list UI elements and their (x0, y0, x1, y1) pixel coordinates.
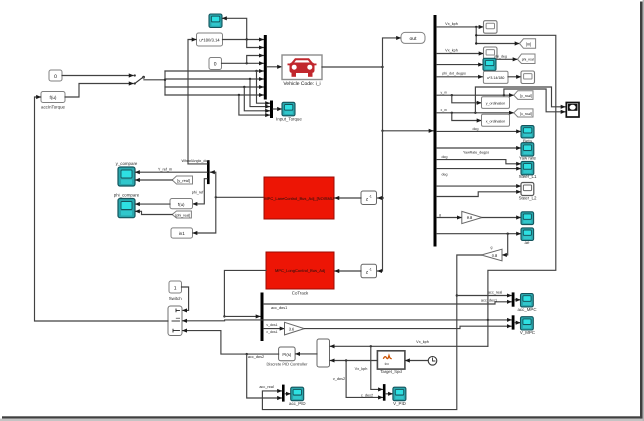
svg-text:Steer_L1: Steer_L1 (519, 174, 537, 179)
svg-text:0: 0 (214, 62, 217, 68)
demux (MPC reference) (207, 160, 210, 184)
wire row x_m: goto [x_real], x_ordination, XY in1 (437, 112, 514, 114)
unit delay z-1 (lower) (361, 264, 377, 278)
wire 0.8 gain out: acc_real feedback loop (262, 255, 481, 410)
svg-text:Discrete PID Controller: Discrete PID Controller (267, 361, 309, 366)
Vehicle Code block (282, 55, 322, 87)
svg-text:Vehicle Code: i_i: Vehicle Code: i_i (283, 81, 320, 87)
y_ordination block (482, 97, 510, 109)
svg-text:acc_MPC: acc_MPC (517, 307, 536, 312)
svg-text:Vx_kph: Vx_kph (416, 340, 429, 344)
mux V_PID + scope (383, 384, 386, 401)
svg-text:deg: deg (473, 127, 479, 131)
goto [phi_real] (518, 54, 536, 64)
mux acc_MPC + scope (512, 292, 515, 306)
svg-text:[phi_real]: [phi_real] (175, 213, 190, 217)
svg-text:y_ordination: y_ordination (486, 102, 506, 106)
scope ae (521, 228, 534, 245)
XY Graph block (566, 103, 579, 118)
scope Steer_L2 (white) (519, 183, 537, 201)
Fcn f(u) 2 (170, 199, 193, 209)
svg-text:3.6: 3.6 (289, 326, 295, 331)
wire branch Vx long feedback (right side down) (476, 35, 556, 346)
svg-text:Y_ref_m: Y_ref_m (158, 168, 172, 172)
wire switch output fan to mux and input-torque mux (144, 79, 165, 81)
wire row deg to Beta scope (437, 130, 521, 132)
svg-text:v_des2: v_des2 (333, 377, 345, 381)
svg-text:f(u): f(u) (178, 202, 185, 207)
wire MPC1 output net (demux input, in1) (216, 196, 264, 198)
wire demux out1 WheelAngle_deg (to x=188 vertical) (188, 163, 207, 165)
svg-text:-1: -1 (369, 194, 372, 198)
wire gain 3.6 out to V_MPC mux (304, 326, 511, 328)
svg-text:g: g (491, 245, 493, 249)
mux (vehicle input) (264, 35, 267, 100)
svg-text:deg: deg (442, 172, 448, 176)
svg-text:c_des2: c_des2 (361, 393, 373, 397)
svg-text:f(u): f(u) (50, 95, 57, 100)
svg-text:acc_real: acc_real (488, 291, 503, 295)
svg-text:accInTorque: accInTorque (41, 105, 65, 110)
wire mux to Input_Torque scope (273, 108, 282, 110)
svg-text:Vx_kph: Vx_kph (355, 367, 368, 371)
svg-text:9.8: 9.8 (467, 215, 473, 220)
wire clock to Target_Spd (405, 360, 428, 362)
sum/error tall box (317, 339, 330, 367)
svg-text:phi_deg: phi_deg (494, 55, 507, 59)
wire z1 out to red MPC1 (335, 197, 361, 199)
svg-text:WheelAngle_deg: WheelAngle_deg (181, 159, 209, 163)
gain block u*180/3.14 (197, 33, 223, 46)
svg-text:c_des1: c_des1 (266, 330, 277, 334)
scope (top, flipped) (209, 14, 222, 28)
wire const0b to big mux (two taps) (222, 62, 264, 64)
svg-text:out: out (410, 36, 418, 42)
svg-text:MPC_LongControl_Bus_Adj: MPC_LongControl_Bus_Adj (275, 268, 325, 273)
svg-text:phi_real: phi_real (522, 58, 534, 62)
wire red2 output to lower demux + switch net (224, 270, 266, 316)
gain 3.6 (285, 322, 305, 335)
svg-text:YawRate_degps: YawRate_degps (463, 151, 489, 155)
wire row phi_dot_degps to u*3.14/180 (437, 76, 483, 78)
svg-text:acc_des2: acc_des2 (248, 355, 264, 359)
wire fan line 1 (165, 70, 263, 72)
svg-text:u*3.14/180: u*3.14/180 (487, 76, 504, 80)
x_ordination block (482, 114, 510, 126)
svg-text:Steer_L2: Steer_L2 (519, 196, 537, 201)
constant 0 (near mux) (209, 58, 222, 70)
svg-text:Yaw rate: Yaw rate (519, 155, 537, 160)
wire v_des1/c_des1 into 3.6 gain (264, 328, 285, 330)
in1 block (171, 228, 193, 238)
display C (521, 71, 535, 84)
svg-text:x_ordination: x_ordination (486, 119, 506, 123)
svg-text:deg: deg (442, 155, 448, 159)
wire Vx_kph into tallbox + V_PID mux (330, 345, 488, 347)
wire const0 to manual switch (62, 75, 133, 77)
wire [y_real] to y_compare (135, 179, 172, 181)
svg-text:Vx_kph: Vx_kph (445, 22, 458, 26)
svg-text:CoTrack: CoTrack (292, 291, 309, 296)
svg-text:v_des1: v_des1 (266, 323, 277, 327)
svg-text:acc_des1: acc_des1 (481, 298, 497, 302)
switch block (flipped) (168, 306, 182, 336)
svg-text:0: 0 (54, 74, 57, 80)
svg-text:-1: -1 (369, 268, 372, 272)
scope ax (521, 212, 534, 225)
svg-text:acc_real: acc_real (259, 385, 274, 389)
out port block (401, 32, 425, 43)
svg-text:Input_Torque: Input_Torque (276, 117, 302, 122)
svg-text:Target_Spd: Target_Spd (380, 369, 402, 374)
svg-text:in1: in1 (179, 231, 186, 236)
wire vehicle output net (to out port, big demux, z-delays) (322, 66, 383, 68)
demux (CoTrack outputs) (261, 293, 264, 342)
svg-text:PI(s): PI(s) (282, 352, 291, 357)
svg-text:[y_real]: [y_real] (177, 178, 190, 183)
svg-text:[m]: [m] (526, 41, 532, 46)
wire row Vx_kph 2 to display B (437, 53, 484, 55)
svg-text:y_m: y_m (441, 90, 448, 94)
PID controller PI(s) (267, 347, 309, 366)
mux (Input_Torque) (270, 101, 273, 119)
svg-text:1: 1 (174, 285, 177, 291)
svg-text:x_m: x_m (441, 108, 448, 112)
wire row deg to Steer_L1 (two inputs) (437, 160, 521, 164)
wire fan line 4 (165, 94, 263, 96)
svg-text:phi_compare: phi_compare (114, 193, 140, 198)
svg-text:V_MPC: V_MPC (520, 330, 535, 335)
wire [phi_real] to phi_compare (135, 211, 172, 214)
svg-text:ae: ae (525, 240, 530, 245)
wire f(u) out to manual switch (65, 84, 133, 98)
svg-text:fcn: fcn (385, 362, 389, 366)
big demux bar (434, 15, 437, 247)
wire demux out3 phi_ref to f(u) (193, 179, 207, 204)
clock block (428, 357, 437, 366)
mux acc_PID + scope (282, 385, 285, 402)
wire row phi to teal block + goto [phi_real] (437, 64, 483, 66)
goto [m] (520, 39, 536, 49)
manual switch (134, 74, 145, 84)
wire demux out2 Y_ref_m to y_compare (135, 171, 207, 173)
svg-text:phi_ref: phi_ref (192, 191, 205, 195)
gain 9.8 (462, 211, 482, 223)
mux V_MPC + scope (512, 315, 515, 329)
wire Target_Spd out to tallbox + V_PID mux (v_des2) (330, 360, 377, 362)
constant 1 (Switch) (169, 281, 182, 301)
display B (484, 47, 498, 60)
svg-text:Switch: Switch (169, 296, 182, 301)
svg-text:phi_dot_degps: phi_dot_degps (442, 72, 466, 76)
wire drops to Input_Torque mux (255, 70, 257, 72)
wire Vx feedback to switch (long) (183, 319, 488, 322)
wire fan line 3 (165, 86, 263, 88)
scope Input_Torque (282, 102, 295, 116)
svg-text:MPC_LaneControl_Bus_Adj_[NOISM: MPC_LaneControl_Bus_Adj_[NOISMU (264, 196, 333, 201)
Fcn f(u) accInTorque (41, 92, 66, 110)
wire tallbox out to PI(s) (296, 353, 317, 355)
svg-text:[x_real]: [x_real] (520, 112, 532, 116)
scope y_compare (116, 161, 138, 186)
wire branch to [m] goto (476, 27, 519, 44)
wire z2 out to red MPC2 (335, 270, 361, 272)
svg-text:V_PID: V_PID (393, 401, 406, 406)
svg-text:acc_des1: acc_des1 (271, 306, 287, 310)
display A (484, 21, 498, 34)
wire switch output loop to f(u) accInTorque (35, 97, 169, 321)
svg-text:y_compare: y_compare (116, 161, 138, 166)
svg-text:[y_real]: [y_real] (520, 94, 532, 98)
From [phi_real] (172, 211, 191, 218)
wire row ae to scope + 0.8 gain feedback (437, 233, 521, 235)
wire f(u)2 out to phi_compare (135, 203, 170, 205)
gain 0.8 (flipped) (481, 245, 502, 260)
wire fan line 2 (165, 78, 263, 80)
right window border (640, 2, 643, 419)
gain u*3.14/180 (483, 71, 508, 83)
wire u*180/3.14 out to big mux (two taps) (223, 39, 264, 41)
wire mux out to vehicle (267, 66, 282, 68)
svg-text:Vx_kph: Vx_kph (445, 49, 458, 53)
red subsystem MPC_LongControl / CoTrack (266, 252, 334, 296)
wire into top scope from u*180/3.14 branch (222, 18, 246, 39)
svg-text:acc_PID: acc_PID (289, 401, 306, 406)
wire row YawRate_degps to Yaw rate scope (437, 147, 521, 149)
unit delay z-1 (upper) (361, 191, 377, 205)
wire PI(s) out net: acc_des2 to switch + acc_PID mux (247, 353, 279, 355)
svg-text:0.8: 0.8 (492, 253, 498, 258)
goto [y_real] (514, 91, 533, 100)
wire WheelAngle_deg vertical up into u*180/3.14 (188, 40, 196, 164)
wire row Vx_kph to display A (437, 26, 484, 28)
wire row y_m: goto [y_real], y_ordination, XY in2 (437, 94, 514, 96)
From [y_real] (172, 176, 192, 184)
scope Beta (521, 126, 534, 144)
wire row g to 9.8 gain and scope (437, 217, 462, 219)
wire acc_des1 long to acc_MPC mux (264, 302, 512, 304)
svg-text:u*180/3.14: u*180/3.14 (199, 38, 220, 43)
svg-text:g: g (439, 213, 441, 217)
wires into Steer_L2 (two inputs) (437, 185, 521, 187)
goto [x_real] (514, 109, 533, 117)
scope phi_compare (114, 193, 140, 218)
scope Steer_L1 (519, 161, 537, 179)
constant 0 (upper-left) (49, 70, 62, 81)
wire const1 to switch control input (182, 287, 189, 310)
teal scope phi (483, 58, 496, 70)
scope Yaw rate (519, 143, 537, 161)
Target_Spd MATLAB function block (377, 351, 405, 374)
bottom window border (2, 416, 643, 418)
wire to display C (508, 76, 521, 78)
red subsystem MPC_LaneControl (264, 177, 334, 219)
